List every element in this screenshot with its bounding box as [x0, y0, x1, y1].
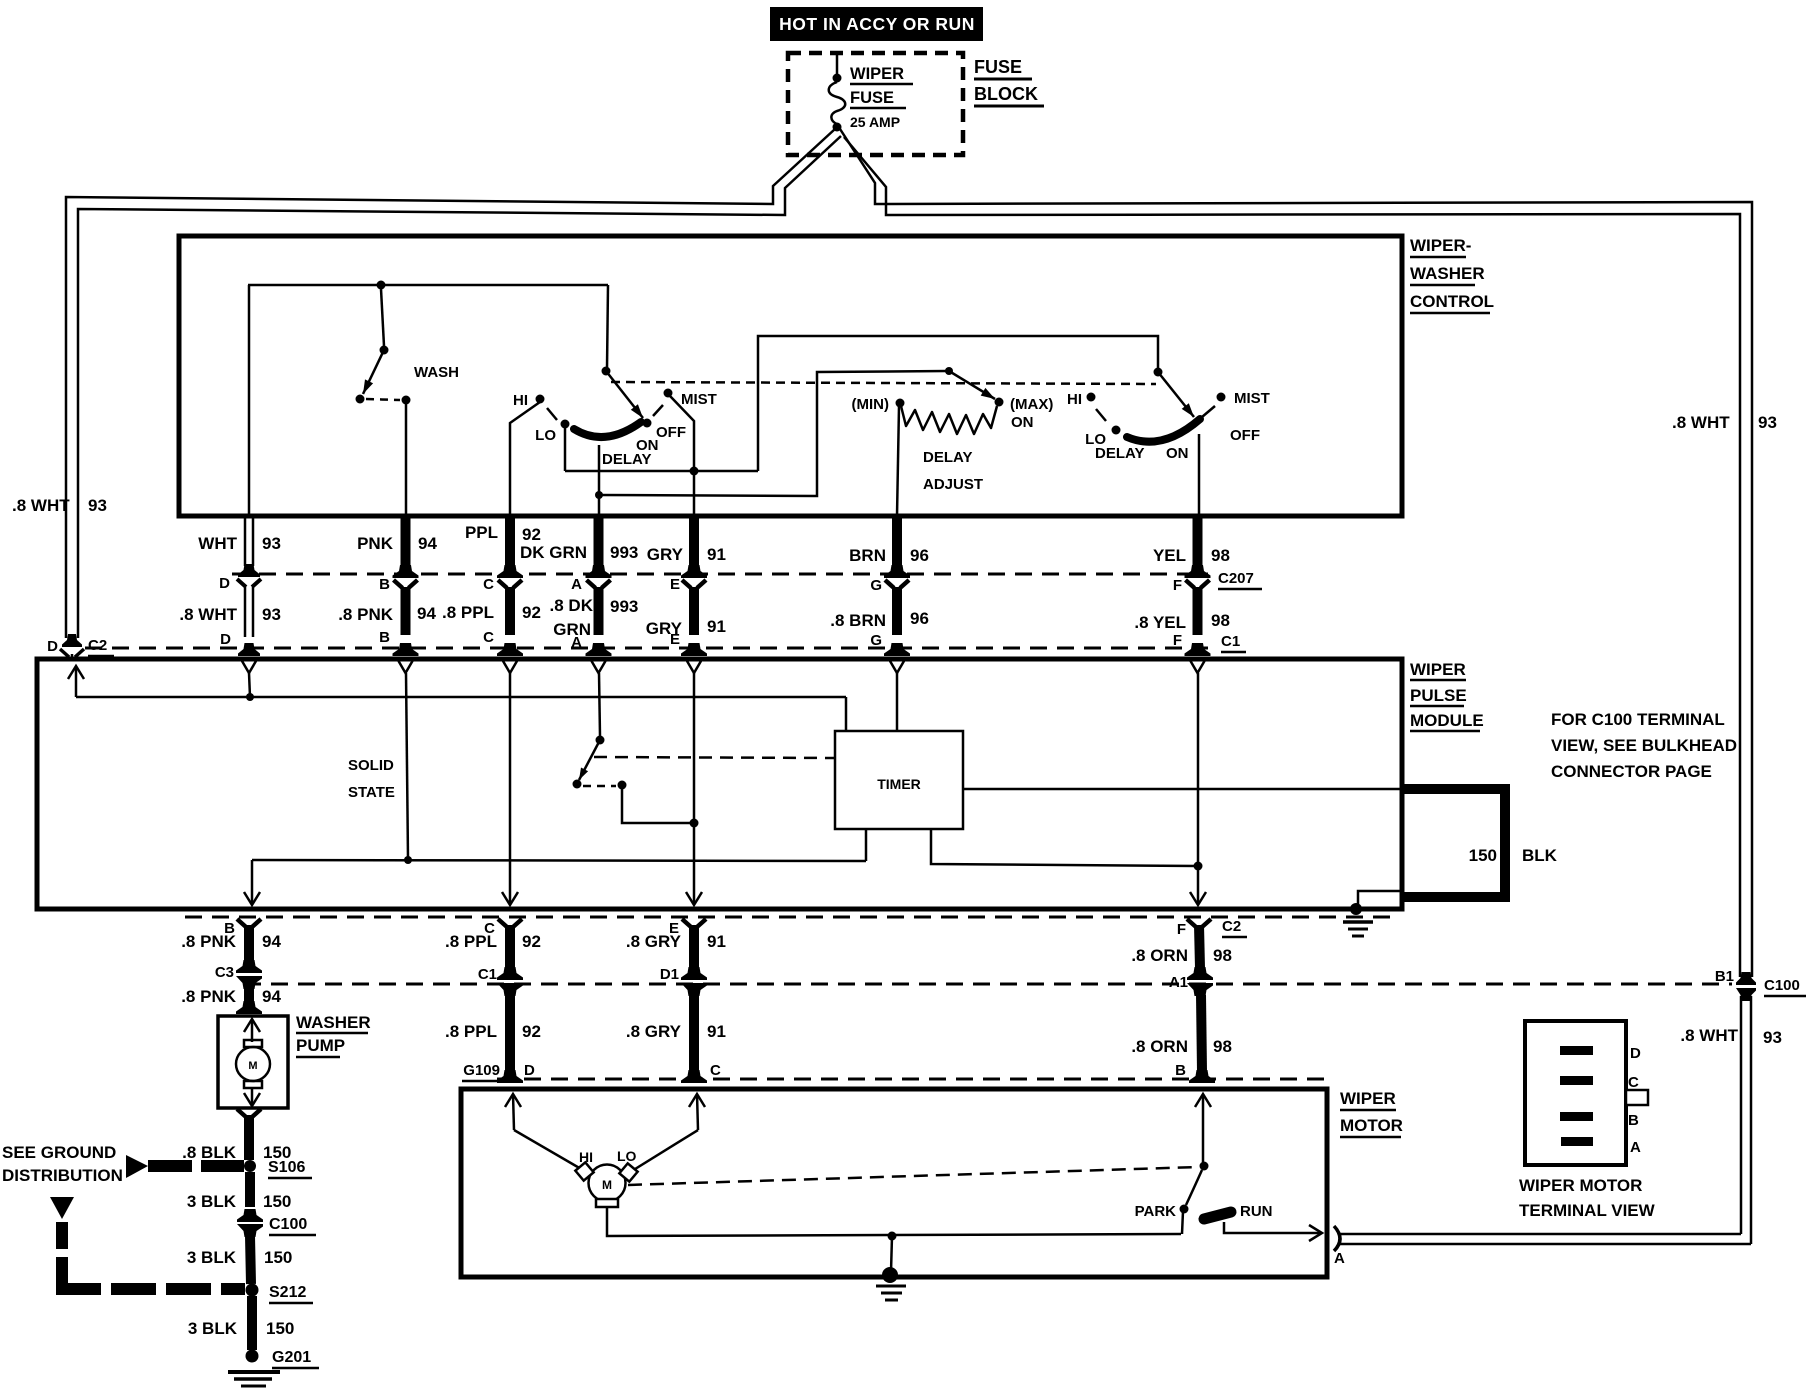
- svg-text:91: 91: [707, 932, 726, 951]
- svg-text:F: F: [1173, 577, 1182, 594]
- module relay lever: [579, 740, 600, 780]
- svg-text:WASHER: WASHER: [1410, 264, 1485, 283]
- svg-text:150: 150: [266, 1319, 294, 1338]
- mechanical link motor-park dashed: [628, 1167, 1199, 1185]
- svg-text:C3: C3: [215, 964, 234, 981]
- ground distribution dashed wire left: [50, 1197, 74, 1219]
- wire .8 ORN 98 (module F to wiper motor B): [1187, 919, 1196, 927]
- timer bottom stub left: [865, 829, 868, 861]
- park contact: [1180, 1205, 1189, 1214]
- svg-text:SEE GROUND: SEE GROUND: [2, 1143, 116, 1162]
- labels .8 GRY 91 lower: [626, 1022, 726, 1041]
- motor input arrow D: [505, 1094, 521, 1107]
- connector row C1 dashed line: [85, 647, 1208, 650]
- module output arrow F: [1190, 892, 1206, 905]
- svg-text:PULSE: PULSE: [1410, 686, 1467, 705]
- svg-text:HOT IN ACCY OR RUN: HOT IN ACCY OR RUN: [779, 14, 975, 34]
- wiper switch 1 lever to OFF: [606, 371, 643, 418]
- label 150 BLK: [1469, 846, 1558, 865]
- svg-text:93: 93: [88, 496, 107, 515]
- svg-text:.8 ORN: .8 ORN: [1131, 1037, 1188, 1056]
- svg-text:DELAY: DELAY: [1095, 445, 1144, 462]
- svg-text:993: 993: [610, 597, 638, 616]
- svg-text:93: 93: [262, 605, 281, 624]
- svg-text:B: B: [1175, 1062, 1186, 1079]
- wire .8 PPL 92 (module C to wiper motor D): [498, 919, 507, 927]
- wire 3 BLK 150 (S212-G201): [247, 1296, 257, 1350]
- svg-text:B: B: [379, 629, 390, 646]
- labels DELAY ON 2: [1095, 445, 1189, 462]
- module output arrow C: [502, 892, 518, 905]
- svg-text:A1: A1: [1169, 974, 1188, 991]
- labels .8 PNK 94 upper: [181, 932, 281, 951]
- wire PPL from HI: [510, 402, 540, 516]
- fuse block box: [788, 53, 963, 155]
- wire labels row 2: [179, 596, 1230, 639]
- svg-text:C1: C1: [1221, 633, 1240, 650]
- svg-text:91: 91: [707, 617, 726, 636]
- wire WHT feed left branch (inner line): [78, 136, 841, 638]
- connector C207 pin letters: [219, 575, 1182, 594]
- svg-text:C100: C100: [269, 1216, 307, 1233]
- junction pot wiper: [945, 367, 953, 375]
- svg-text:GRY: GRY: [647, 545, 684, 564]
- svg-text:B: B: [379, 576, 390, 593]
- svg-text:MIST: MIST: [681, 391, 717, 408]
- connector C2 pin D (left WHT wire): [62, 634, 82, 647]
- ground stub outline: [1358, 891, 1404, 907]
- svg-text:WHT: WHT: [198, 534, 237, 553]
- mechanical link relay-timer dashed: [594, 757, 834, 758]
- svg-text:CONTROL: CONTROL: [1410, 292, 1494, 311]
- junction GRY-LO bus: [690, 467, 699, 476]
- module input Y GRY E / through line: [687, 661, 701, 673]
- module input Y YEL F / through line: [1191, 661, 1205, 673]
- wire BRN 96 (to module): [892, 516, 902, 566]
- motor input arrow B: [1195, 1094, 1211, 1107]
- svg-text:WIPER MOTOR: WIPER MOTOR: [1519, 1176, 1642, 1195]
- timer box: [835, 731, 963, 829]
- labels .8 GRY 91 upper: [626, 932, 726, 951]
- svg-text:STATE: STATE: [348, 784, 395, 801]
- svg-text:SOLID: SOLID: [348, 757, 394, 774]
- wiper switch 2 MIST contact: [1217, 393, 1226, 402]
- svg-text:A: A: [1334, 1250, 1345, 1267]
- park switch pivot: [1200, 1162, 1209, 1171]
- svg-text:D: D: [220, 631, 231, 648]
- svg-text:D1: D1: [660, 966, 679, 983]
- motor ground dot: [882, 1267, 898, 1283]
- washer pump box: [218, 1016, 288, 1108]
- wire LO1 drop: [564, 428, 567, 471]
- svg-text:93: 93: [1763, 1028, 1782, 1047]
- svg-text:ADJUST: ADJUST: [923, 476, 983, 493]
- wiper switch 1 MIST contact: [664, 389, 673, 398]
- svg-text:.8 PPL: .8 PPL: [445, 1022, 497, 1041]
- svg-text:G: G: [870, 632, 882, 649]
- svg-text:.8 WHT: .8 WHT: [1680, 1026, 1738, 1045]
- park switch lever: [1186, 1170, 1202, 1205]
- svg-text:LO: LO: [617, 1148, 637, 1164]
- svg-text:B: B: [1628, 1112, 1639, 1129]
- motor ground drop: [891, 1236, 892, 1272]
- module relay dashed link: [583, 785, 616, 788]
- wiper fuse 25 AMP: [829, 51, 846, 132]
- labels .8 PPL 92 upper: [445, 932, 541, 951]
- timer feed stub: [845, 697, 848, 731]
- svg-text:D: D: [1630, 1045, 1641, 1062]
- svg-text:150: 150: [264, 1248, 292, 1267]
- wiper switch 2 HI tick: [1096, 409, 1106, 421]
- svg-text:DELAY: DELAY: [923, 449, 972, 466]
- wire YEL 98 (to module): [1193, 516, 1203, 566]
- wire BRN from MIN: [897, 406, 899, 516]
- module input Y DK GRN A: [592, 661, 606, 673]
- label DELAY ADJUST: [923, 449, 983, 493]
- connector row C2 dashed line: [185, 916, 1400, 919]
- wiper switch 2 HI contact: [1087, 393, 1096, 402]
- svg-text:PPL: PPL: [465, 523, 498, 542]
- svg-text:92: 92: [522, 1022, 541, 1041]
- wire DELAY1 riser DK GRN: [598, 445, 601, 516]
- delay adjust resistor: [901, 406, 997, 434]
- washer pump motor: [236, 1040, 270, 1088]
- svg-text:.8 ORN: .8 ORN: [1131, 946, 1188, 965]
- run contact pad: [1204, 1212, 1231, 1219]
- connector G109 label: [462, 1062, 535, 1081]
- svg-text:A: A: [571, 634, 582, 651]
- svg-text:ON: ON: [1166, 445, 1189, 462]
- wire BLK 150 ground loop: [1402, 784, 1510, 794]
- module input Y PNK B: [399, 661, 413, 673]
- connector row C207 dashed line: [232, 573, 1208, 576]
- svg-text:96: 96: [910, 546, 929, 565]
- module ground symbol: [1343, 922, 1373, 936]
- connector row C100 dashed line: [244, 983, 1732, 986]
- svg-text:.8 PNK: .8 PNK: [338, 605, 394, 624]
- wire WHT feed right branch (outer line): [840, 129, 1752, 977]
- svg-text:MODULE: MODULE: [1410, 711, 1484, 730]
- svg-text:PNK: PNK: [357, 534, 394, 553]
- svg-text:ON: ON: [1011, 414, 1034, 431]
- svg-text:98: 98: [1213, 946, 1232, 965]
- terminal view caption: [1519, 1176, 1656, 1220]
- svg-text:RUN: RUN: [1240, 1203, 1273, 1220]
- wiper switch 2 arc hook: [1202, 406, 1215, 417]
- labels HI LO motor: [579, 1148, 637, 1165]
- delay adjust MIN contact: [896, 399, 905, 408]
- svg-text:3 BLK: 3 BLK: [187, 1192, 237, 1211]
- module output arrow E: [686, 892, 702, 905]
- wire labels row 1: [198, 523, 1230, 565]
- connector C100 pin B1 (right WHT wire): [1736, 972, 1756, 985]
- svg-text:S106: S106: [268, 1159, 305, 1176]
- svg-text:150: 150: [263, 1192, 291, 1211]
- svg-text:MOTOR: MOTOR: [1340, 1116, 1403, 1135]
- svg-text:FUSE: FUSE: [974, 57, 1022, 77]
- svg-text:A: A: [571, 576, 582, 593]
- svg-text:94: 94: [262, 987, 281, 1006]
- connector C1 pin letters: [220, 629, 1182, 651]
- svg-text:DELAY: DELAY: [602, 451, 651, 468]
- svg-text:.8 PNK: .8 PNK: [181, 987, 237, 1006]
- wash switch pivot: [380, 346, 389, 355]
- wiper switch 1 HI tick: [547, 408, 557, 420]
- svg-text:92: 92: [522, 932, 541, 951]
- svg-text:.8 BLK: .8 BLK: [182, 1143, 237, 1162]
- see ground distribution pointer: [2, 1143, 244, 1185]
- power feed label HOT IN ACCY OR RUN: [770, 7, 983, 41]
- svg-text:TIMER: TIMER: [877, 776, 921, 792]
- washer pump label: [296, 1013, 371, 1057]
- svg-text:.8 BRN: .8 BRN: [830, 611, 886, 630]
- wiper fuse labels: [850, 65, 913, 130]
- svg-text:91: 91: [707, 1022, 726, 1041]
- svg-text:FOR C100 TERMINAL: FOR C100 TERMINAL: [1551, 710, 1725, 729]
- svg-text:BLK: BLK: [1522, 846, 1558, 865]
- svg-text:BLOCK: BLOCK: [974, 84, 1038, 104]
- wire YEL from OFF2: [1198, 434, 1201, 516]
- wiper-washer control label: [1410, 236, 1494, 313]
- svg-text:.8 YEL: .8 YEL: [1134, 613, 1186, 632]
- note FOR C100 TERMINAL VIEW: [1551, 710, 1737, 781]
- wire relay to GRY line: [622, 789, 694, 823]
- svg-text:C: C: [483, 576, 494, 593]
- junction DELAY1: [595, 491, 603, 499]
- module ground junction: [1350, 903, 1362, 915]
- svg-text:VIEW, SEE BULKHEAD: VIEW, SEE BULKHEAD: [1551, 736, 1737, 755]
- svg-text:C: C: [710, 1062, 721, 1079]
- motor HI lead: [514, 1130, 588, 1173]
- wiper-washer control box: [179, 236, 1402, 516]
- wire delay to pot wiper: [599, 371, 947, 496]
- svg-text:94: 94: [262, 932, 281, 951]
- svg-text:YEL: YEL: [1153, 546, 1186, 565]
- module output arrow B: [244, 892, 260, 905]
- svg-text:B1: B1: [1715, 968, 1734, 985]
- svg-text:.8 GRY: .8 GRY: [626, 1022, 682, 1041]
- svg-text:25 AMP: 25 AMP: [850, 114, 900, 130]
- svg-text:WIPER: WIPER: [850, 65, 904, 83]
- terminal view pin letters: [1628, 1045, 1641, 1156]
- wiper switch 1 pivot: [602, 367, 611, 376]
- svg-text:92: 92: [522, 525, 541, 544]
- svg-text:BRN: BRN: [849, 546, 886, 565]
- wiper switch 1 HI contact: [536, 395, 545, 404]
- svg-text:94: 94: [418, 534, 437, 553]
- timer output right line: [963, 788, 1400, 791]
- svg-text:D: D: [47, 638, 58, 655]
- svg-text:MIST: MIST: [1234, 390, 1270, 407]
- svg-text:OFF: OFF: [1230, 427, 1260, 444]
- module input Y PPL C / through line: [503, 661, 517, 673]
- wiper switch 1 OFF contact: [643, 419, 652, 428]
- svg-text:98: 98: [1211, 546, 1230, 565]
- labels .8 ORN 98 lower: [1131, 1037, 1232, 1056]
- connector C1 label: [1221, 633, 1246, 652]
- labels .8 ORN 98 upper: [1131, 946, 1232, 965]
- labels ON DELAY 1: [602, 437, 659, 468]
- wiper motor M: [575, 1162, 637, 1207]
- module relay contact right: [618, 781, 627, 790]
- svg-text:F: F: [1173, 632, 1182, 649]
- svg-text:96: 96: [910, 609, 929, 628]
- splice S106: [244, 1160, 256, 1172]
- svg-text:93: 93: [1758, 413, 1777, 432]
- wiper motor terminal view connector: [1525, 1021, 1648, 1165]
- wiper switch 2 LO contact: [1112, 426, 1121, 435]
- svg-text:G: G: [870, 577, 882, 594]
- junction GRY internal: [690, 819, 699, 828]
- svg-text:E: E: [670, 576, 680, 593]
- wire LO bus riser to switch2: [758, 336, 1158, 471]
- wiper switch 1 pivot riser: [607, 285, 608, 368]
- fuse block label: [974, 57, 1044, 106]
- wire MIST1 to GRY: [670, 396, 694, 516]
- wash switch contact: [356, 395, 365, 404]
- wiper pulse module label: [1410, 660, 1484, 731]
- svg-text:92: 92: [522, 603, 541, 622]
- svg-text:.8 WHT: .8 WHT: [12, 496, 70, 515]
- label .8 WHT 93 lower right: [1680, 1026, 1782, 1047]
- wiper switch 1 LO contact: [561, 420, 570, 429]
- svg-text:.8 WHT: .8 WHT: [179, 605, 237, 624]
- wire DK GRN 993 (to module): [594, 516, 604, 566]
- svg-text:TERMINAL VIEW: TERMINAL VIEW: [1519, 1201, 1656, 1220]
- svg-text:WIPER: WIPER: [1340, 1089, 1396, 1108]
- svg-text:G201: G201: [272, 1349, 311, 1366]
- wire LO bus horizontal: [565, 470, 758, 473]
- connector C207 label: [1218, 570, 1262, 589]
- junction YEL internal: [1194, 862, 1203, 871]
- svg-text:WASHER: WASHER: [296, 1013, 371, 1032]
- wire WHT riser inside control: [248, 285, 251, 516]
- svg-text:M: M: [602, 1178, 612, 1192]
- svg-text:PUMP: PUMP: [296, 1036, 345, 1055]
- svg-text:.8 DK: .8 DK: [550, 596, 594, 615]
- label .8 WHT 93 right: [1672, 413, 1777, 432]
- wash switch feed stub: [381, 289, 384, 346]
- motor input arrow C: [689, 1094, 705, 1107]
- splice S212: [246, 1284, 259, 1297]
- motor output arrow A: [1309, 1225, 1322, 1241]
- washer pump output arrow: [251, 1088, 254, 1094]
- svg-text:HI: HI: [513, 392, 528, 409]
- svg-text:C2: C2: [1222, 918, 1241, 935]
- wire feed top line: [248, 284, 608, 287]
- svg-text:.8 PPL: .8 PPL: [445, 932, 497, 951]
- svg-text:D: D: [219, 575, 230, 592]
- labels .8 PNK 94 lower: [181, 987, 281, 1006]
- labels .8 PPL 92 lower: [445, 1022, 541, 1041]
- junction WHT feed: [246, 693, 254, 701]
- connector at motor A output: [1334, 1226, 1340, 1251]
- svg-text:98: 98: [1211, 611, 1230, 630]
- wiper motor box: [461, 1089, 1327, 1277]
- motor ground lead: [607, 1207, 1181, 1236]
- svg-text:LO: LO: [535, 427, 556, 444]
- svg-text:C1: C1: [478, 966, 497, 983]
- svg-text:C: C: [1628, 1074, 1639, 1091]
- wiper pulse module box: [37, 659, 1402, 909]
- module input arrow (left WHT): [68, 666, 84, 679]
- wire WHT 93 (to module): [244, 516, 247, 566]
- mechanical link dashed switch1-switch2: [611, 382, 1156, 384]
- svg-text:G109: G109: [463, 1062, 500, 1079]
- svg-text:E: E: [670, 631, 680, 648]
- wire 3 BLK 150 (S106-C100): [245, 1172, 255, 1207]
- svg-text:CONNECTOR PAGE: CONNECTOR PAGE: [1551, 762, 1712, 781]
- wire .8 PNK 94 (module B to washer pump): [237, 919, 246, 927]
- svg-text:C2: C2: [88, 637, 107, 654]
- svg-text:OFF: OFF: [656, 424, 686, 441]
- svg-text:.8 GRY: .8 GRY: [626, 932, 682, 951]
- wiper motor label: [1340, 1089, 1403, 1137]
- wash switch lever: [363, 350, 384, 394]
- wash switch dashed link: [366, 399, 400, 400]
- svg-text:.8 PPL: .8 PPL: [442, 603, 494, 622]
- svg-text:C207: C207: [1218, 570, 1254, 587]
- motor ground symbol: [876, 1286, 906, 1300]
- wire PPL 92 (to module): [505, 516, 515, 566]
- connector row wiper motor dashed line: [497, 1078, 1324, 1081]
- svg-text:PARK: PARK: [1135, 1203, 1177, 1220]
- svg-text:FUSE: FUSE: [850, 89, 894, 107]
- junction PNK-B line: [404, 856, 412, 864]
- svg-text:DK GRN: DK GRN: [520, 543, 587, 562]
- svg-text:94: 94: [417, 604, 436, 623]
- timer bottom stub right: [931, 829, 1198, 866]
- wiper switch 1 delay arc: [574, 422, 641, 437]
- svg-text:DISTRIBUTION: DISTRIBUTION: [2, 1166, 123, 1185]
- label .8 WHT 93 left: [12, 496, 107, 515]
- svg-text:F: F: [1177, 921, 1186, 938]
- module relay pivot: [596, 736, 605, 745]
- wire GRY 91 (to module): [689, 516, 699, 566]
- wiper switch 2 lever: [1158, 372, 1194, 417]
- module relay contact left: [573, 780, 582, 789]
- svg-text:D: D: [524, 1062, 535, 1079]
- wire PNK riser: [405, 400, 408, 516]
- svg-text:993: 993: [610, 543, 638, 562]
- svg-text:WIPER-: WIPER-: [1410, 236, 1471, 255]
- svg-text:HI: HI: [1067, 391, 1082, 408]
- svg-text:3 BLK: 3 BLK: [188, 1319, 238, 1338]
- wire .8 BLK 150: [237, 1109, 246, 1117]
- module internal feed line: [76, 696, 846, 699]
- wire WHT 93 right vertical lower: [1740, 996, 1743, 1234]
- svg-text:B: B: [224, 920, 235, 937]
- junction motor ground: [888, 1232, 897, 1241]
- svg-text:WASH: WASH: [414, 364, 459, 381]
- svg-text:93: 93: [262, 534, 281, 553]
- park wire drop: [1182, 1211, 1183, 1234]
- wiper switch 2 delay arc: [1127, 419, 1200, 442]
- wiper switch 1 OFF tick: [653, 405, 663, 416]
- svg-text:98: 98: [1213, 1037, 1232, 1056]
- connector C2 label: [1222, 918, 1247, 937]
- junction wash tap: [377, 281, 386, 290]
- module input Y WHT D: [242, 661, 256, 673]
- svg-text:150: 150: [1469, 846, 1497, 865]
- connector C2 pin letters row: [224, 920, 1186, 938]
- delay adjust MAX contact: [995, 398, 1004, 407]
- wire WHT 93 bottom run to motor A: [1340, 1233, 1741, 1236]
- svg-text:(MIN): (MIN): [852, 396, 890, 413]
- svg-text:C: C: [483, 629, 494, 646]
- wash output contact: [402, 396, 411, 405]
- wiper switch 2 pivot: [1154, 368, 1163, 377]
